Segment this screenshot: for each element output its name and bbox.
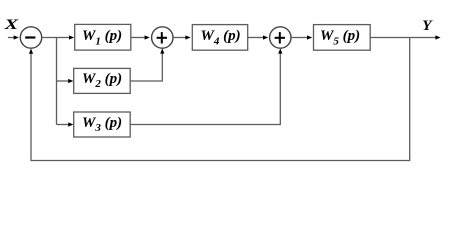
arrowhead up into S2 — [160, 48, 164, 53]
wire W5 to output Y — [370, 37, 436, 39]
arrowhead into S2 — [145, 35, 150, 39]
arrowhead into W3 — [68, 122, 73, 126]
wire W4 to S3 — [248, 37, 264, 39]
arrowhead input — [14, 35, 19, 39]
plus sign in S3 — [275, 37, 285, 39]
wire W3 to S3 (up) — [130, 54, 280, 125]
wire input arrow into summing junction S1 — [8, 37, 14, 39]
arrowhead into W5 — [307, 35, 312, 39]
arrowhead into W4 — [185, 35, 190, 39]
wire branch vertical distribution line — [56, 38, 58, 125]
wire W2 to S2 (up) — [130, 54, 162, 82]
arrowhead into W2 — [68, 79, 73, 83]
arrowhead output — [435, 35, 440, 39]
summing junction S1 — [20, 27, 41, 48]
summing junction S2 — [152, 27, 173, 48]
minus sign in S1 — [25, 36, 35, 38]
block W2 — [74, 68, 131, 93]
summing junction S3 — [270, 27, 291, 48]
block W5 — [314, 25, 371, 51]
wire branch to W2 — [57, 80, 69, 82]
wire S1 to W1 — [42, 37, 70, 39]
wire S3 to W5 — [291, 37, 309, 39]
wire W1 to S2 — [131, 37, 146, 39]
block W1 — [75, 24, 131, 50]
svg-text:X: X — [3, 16, 19, 33]
wire S2 to W4 — [173, 37, 187, 39]
arrowhead into S3 — [263, 35, 268, 39]
plus sign in S2 — [157, 37, 167, 39]
arrowhead into W1 — [69, 35, 74, 39]
block W4 — [192, 25, 247, 51]
arrowhead up into S1 — [29, 49, 33, 54]
arrowhead up into S3 — [278, 48, 282, 53]
wire feedback loop from output tap to S1 — [31, 38, 410, 161]
block W3 — [74, 112, 131, 137]
wire elbow to W3 — [57, 124, 69, 126]
